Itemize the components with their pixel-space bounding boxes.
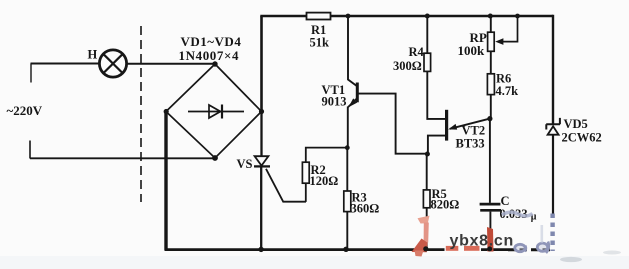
watermark gray smudges: [560, 257, 582, 262]
node bus wiper: [515, 14, 520, 19]
node bus R1-VT1: [346, 14, 351, 19]
wire VS cathode to bus: [260, 167, 262, 249]
svg-text:R4: R4: [409, 45, 425, 59]
wire right rail top: [552, 15, 554, 124]
potentiometer RP body: [488, 32, 495, 51]
svg-text:VD1~VD4: VD1~VD4: [181, 34, 242, 49]
resistor R3 body: [344, 191, 351, 212]
watermark faint ghost: [541, 225, 544, 243]
node bus R4: [425, 14, 430, 19]
wire AC top terminal stub: [30, 64, 32, 83]
transistor VT1 collector lead: [348, 16, 357, 86]
transistor VT1 emitter: [348, 99, 357, 148]
node VS bus: [258, 247, 263, 252]
wire VT1 base to VT2 B1 node: [359, 94, 428, 154]
svg-text:820Ω: 820Ω: [431, 198, 460, 212]
node bridge top: [212, 61, 217, 66]
potentiometer RP leads: [490, 16, 492, 74]
wire top bus: [260, 15, 553, 18]
svg-text:300Ω: 300Ω: [393, 59, 422, 73]
svg-text:ybx8.cn: ybx8.cn: [450, 232, 515, 249]
watermark blue glyphs on bus: [515, 242, 549, 254]
svg-text:1N4007×4: 1N4007×4: [179, 48, 240, 63]
transistor VT2 B1 lead: [428, 136, 445, 154]
svg-text:9013: 9013: [322, 95, 347, 109]
svg-text:4.7k: 4.7k: [496, 84, 519, 98]
node VT2 B1 R5: [425, 152, 430, 157]
resistor R2 leads: [306, 148, 348, 202]
resistor R6 bottom lead: [490, 95, 492, 119]
svg-text:100k: 100k: [458, 43, 486, 58]
watermark red figure: [412, 216, 430, 257]
zener VD5 triangle: [548, 126, 559, 134]
wire VS gate: [266, 169, 306, 202]
wire left to lamp: [31, 63, 100, 65]
transistor VT1 base bar: [356, 83, 359, 103]
node bridge bottom: [212, 155, 218, 161]
thyristor VS anode lead: [260, 112, 262, 157]
svg-text:VT2: VT2: [462, 124, 486, 138]
zener VD5 cathode bar: [546, 118, 560, 130]
svg-text:C: C: [501, 194, 510, 208]
transistor VT2 bar: [445, 110, 448, 141]
dashed separation line: [140, 26, 142, 202]
wire zener to bottom: [552, 135, 554, 214]
svg-text:51k: 51k: [310, 36, 330, 50]
watermark blue swoosh under 0.033: [502, 212, 533, 216]
node VT2 emitter C: [487, 116, 492, 121]
svg-text:VS: VS: [237, 157, 253, 171]
resistor R4 body: [424, 53, 431, 71]
watermark red stroke at C: [487, 227, 494, 252]
wire lamp to bridge top: [127, 63, 215, 65]
transistor VT2 emitter wire: [450, 119, 490, 129]
thyristor VS: [255, 156, 269, 165]
watermark red dashes on bus: [445, 245, 482, 252]
wire AC bottom terminal stub: [29, 141, 31, 159]
wire thick drop bridge left to bottom bus: [164, 112, 167, 251]
resistor R3 leads: [346, 148, 348, 250]
capacitor C top lead: [489, 119, 491, 203]
svg-text:360Ω: 360Ω: [351, 202, 380, 216]
node bridge right: [259, 109, 264, 114]
lamp H: [99, 50, 126, 77]
capacitor C bottom lead: [489, 212, 491, 250]
diode inside bridge: [188, 111, 244, 113]
resistor R1 body: [307, 13, 331, 20]
node bridge left: [164, 109, 169, 114]
resistor R6 body: [487, 74, 494, 95]
transistor VT2 emitter arrow: [448, 124, 457, 130]
resistor R4 leads: [427, 16, 445, 119]
svg-text:2CW62: 2CW62: [562, 131, 602, 145]
svg-text:H: H: [88, 48, 98, 62]
potentiometer RP wiper arrow: [495, 38, 503, 45]
svg-text:120Ω: 120Ω: [310, 174, 339, 188]
wire bottom AC to bridge bottom: [30, 157, 215, 159]
potentiometer RP wiper: [502, 16, 518, 42]
resistor R5 body: [423, 190, 430, 208]
svg-text:~220V: ~220V: [7, 103, 43, 118]
resistor R2 body: [302, 162, 309, 183]
wire bridge right vertex up: [260, 16, 263, 112]
bridge VD1-VD4 diamond: [166, 64, 262, 158]
watermark blue dashed rail: [550, 214, 554, 252]
capacitor C plates: [480, 203, 501, 206]
svg-text:VD5: VD5: [564, 117, 588, 131]
node R2-R3-VT1: [345, 145, 350, 150]
resistor R5 leads: [426, 154, 428, 250]
node bus RP: [488, 14, 493, 19]
node R5 bus: [423, 246, 428, 251]
wire bottom bus: [165, 248, 509, 251]
svg-text:BT33: BT33: [456, 137, 485, 151]
transistor VT1 emitter arrow: [348, 98, 357, 107]
label texts: [7, 23, 602, 223]
node C bus: [487, 246, 492, 251]
node R3 bus: [343, 247, 348, 252]
